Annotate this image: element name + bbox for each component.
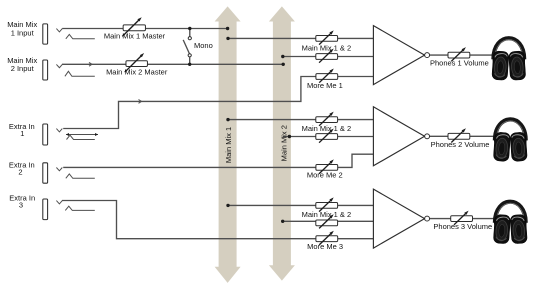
jack Main Mix 1 input ring contact (66, 34, 95, 38)
svg-text:More Me 3: More Me 3 (307, 242, 343, 251)
svg-text:Main Mix 2: Main Mix 2 (279, 125, 288, 161)
potentiometer Main Mix 2 Master (125, 53, 148, 72)
potentiometer More Me 3 (316, 231, 338, 245)
svg-text:1: 1 (20, 129, 24, 138)
headphones 2 icon (493, 119, 527, 161)
svg-text:Main Mix 1 & 2: Main Mix 1 & 2 (302, 43, 352, 52)
junction bus 2 feed channel 2 (288, 135, 291, 138)
svg-text:Phones 3 Volume: Phones 3 Volume (433, 222, 492, 231)
potentiometer phones 2 Main Mix 1 level (316, 112, 338, 126)
jack Main Mix 2 input ring contact (65, 71, 95, 76)
wire bus 1 to phones 2 Main Mix 1 pot and amp (228, 119, 373, 121)
phones 3 output circle (425, 216, 430, 221)
jack Extra In 1 normalling double arrow (66, 133, 98, 136)
wire amp 1 output to Phones 1 Volume pot (430, 54, 449, 56)
jack Extra In 3 tip contact (56, 201, 62, 204)
jack Main Mix 1 input tip contact (56, 29, 62, 32)
jack Extra In 1 connector body (43, 124, 48, 145)
jack Extra In 2 ring contact (66, 174, 95, 178)
jack Main Mix 2 input tip contact (56, 64, 62, 67)
wire Phones 2 Volume pot to headphones 2 (470, 135, 494, 137)
svg-text:Phones 1 Volume: Phones 1 Volume (430, 58, 489, 67)
svg-text:Main Mix 1 Master: Main Mix 1 Master (104, 32, 166, 41)
signal direction arrow on Main Mix 2 wire (89, 62, 92, 66)
jack Extra In 2 connector body (43, 163, 48, 183)
mono switch (183, 29, 191, 65)
jack Main Mix 2 input connector body (43, 60, 48, 80)
wire bus 1 to phones 3 Main Mix 1 pot and amp (228, 204, 373, 206)
junction bus 2 feed channel 1 (281, 55, 284, 58)
phones 1 amplifier (373, 26, 424, 85)
bus Main Mix 2 (vertical double-arrow) (269, 6, 295, 280)
headphones 1 icon (492, 38, 526, 80)
svg-text:More Me 2: More Me 2 (307, 171, 343, 180)
wire bus 2 to phones 1 Main Mix 2 pot and amp (283, 56, 374, 58)
phones 3 amplifier (373, 189, 424, 248)
wire amp 3 output to Phones 3 Volume pot (430, 218, 452, 220)
junction mono switch on Main Mix 1 line (188, 27, 191, 30)
wire bus 1 to phones 1 Main Mix 1 pot and amp (228, 37, 373, 39)
junction Main Mix 2 line to bus 2 (282, 63, 285, 66)
svg-text:Main Mix 1 & 2: Main Mix 1 & 2 (302, 124, 352, 133)
svg-text:Mono: Mono (194, 41, 213, 50)
wire bus 2 to phones 2 Main Mix 2 pot and amp (283, 136, 374, 138)
junction mono switch on Main Mix 2 line (188, 63, 191, 66)
wire bus 2 to phones 3 Main Mix 2 pot and amp (283, 220, 374, 222)
phones 2 amplifier (373, 107, 424, 166)
potentiometer Main Mix 1 Master (122, 17, 145, 36)
phones 1 output circle (425, 53, 430, 58)
junction bus 1 feed channel 3 (226, 204, 229, 207)
wire Main Mix 2 input to bus 2 (62, 63, 283, 65)
wire Extra In 1 to More Me 1 pot (63, 77, 373, 129)
wire Main Mix 1 input to bus 1 (62, 28, 227, 30)
potentiometer phones 2 Main Mix 2 level (316, 129, 338, 143)
svg-text:Main Mix 1: Main Mix 1 (224, 127, 233, 163)
bus Main Mix 1 (vertical double-arrow) (215, 6, 241, 283)
wire Phones 1 Volume pot to headphones 1 (470, 54, 493, 56)
svg-text:More Me 1: More Me 1 (307, 81, 343, 90)
potentiometer phones 3 Main Mix 1 level (316, 197, 338, 211)
potentiometer Phones 1 Volume (448, 47, 470, 61)
jack Extra In 3 connector body (43, 199, 48, 220)
potentiometer phones 3 Main Mix 2 level (316, 214, 338, 228)
svg-text:2 Input: 2 Input (11, 64, 35, 73)
jack Extra In 3 ring contact (65, 206, 95, 210)
headphones 3 icon (493, 202, 527, 244)
junction Main Mix 1 line to bus 1 (226, 27, 229, 30)
phones 2 output circle (425, 134, 430, 139)
wire Extra In 2 to More Me 2 pot and amp (63, 154, 373, 167)
svg-text:2: 2 (18, 168, 22, 177)
jack Extra In 1 ring contact (67, 135, 95, 139)
potentiometer phones 1 Main Mix 1 level (316, 30, 338, 44)
junction bus 1 feed channel 1 (226, 37, 229, 40)
potentiometer More Me 1 (316, 69, 338, 83)
svg-text:Main Mix 2 Master: Main Mix 2 Master (106, 68, 168, 77)
jack Extra In 2 tip contact (56, 168, 62, 171)
potentiometer phones 1 Main Mix 2 level (316, 49, 338, 63)
wire Extra In 3 to More Me 3 pot and amp (62, 201, 373, 239)
potentiometer More Me 2 (316, 159, 338, 173)
junction bus 1 feed channel 2 (226, 118, 229, 121)
wire Phones 3 Volume pot to headphones 3 (473, 218, 495, 220)
potentiometer Phones 2 Volume (448, 128, 470, 142)
wire amp 2 output to Phones 2 Volume pot (430, 135, 449, 137)
signal direction arrow on Extra In 1 wire (139, 100, 142, 104)
junction bus 2 feed channel 3 (281, 220, 284, 223)
svg-text:Phones 2 Volume: Phones 2 Volume (431, 140, 490, 149)
jack Extra In 1 tip contact (56, 129, 62, 132)
svg-text:1 Input: 1 Input (11, 28, 35, 37)
svg-text:Main Mix 1 & 2: Main Mix 1 & 2 (302, 210, 352, 219)
svg-text:3: 3 (19, 201, 23, 210)
jack Main Mix 1 input connector body (43, 24, 48, 44)
potentiometer Phones 3 Volume (451, 211, 473, 225)
